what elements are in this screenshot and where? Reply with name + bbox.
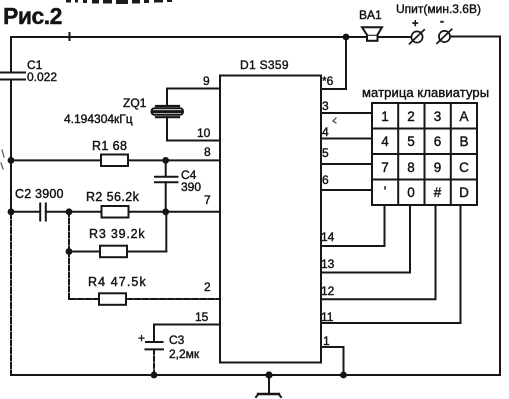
resistor R2: [102, 206, 129, 218]
capacitor C4: [155, 160, 178, 211]
wire pin10: [167, 140, 220, 142]
wire row pin8 / R1: [11, 159, 220, 161]
svg-text:2: 2: [407, 109, 415, 124]
label pin 7: [204, 193, 211, 207]
wire pin3 to keypad row1: [321, 112, 372, 114]
svg-text:4: 4: [381, 134, 389, 149]
label Uпит: [396, 2, 481, 16]
wire keypad col1 to pin14: [321, 205, 385, 246]
svg-text:-: -: [440, 14, 444, 28]
svg-text:15: 15: [195, 310, 209, 324]
label C3 polarity plus: [138, 331, 145, 345]
svg-text:1: 1: [323, 334, 330, 348]
junction node ground: [265, 371, 272, 378]
svg-text:14: 14: [321, 230, 335, 244]
caption Рис.2: [3, 3, 62, 29]
terminal minus: [437, 29, 452, 43]
label ZQ1: [123, 96, 147, 110]
svg-text:ZQ1: ZQ1: [123, 96, 147, 110]
wire crystal bottom vertical: [166, 117, 168, 141]
wire left rail upper: [10, 37, 12, 72]
keypad key hash: [434, 185, 442, 200]
label pin *6: [322, 74, 334, 88]
svg-text:R2 56.2k: R2 56.2k: [86, 190, 140, 204]
tick mark on top rail: [69, 33, 71, 40]
label pin 3: [322, 99, 329, 113]
label pin 4: [322, 125, 329, 139]
wire R4 branch vertical: [68, 252, 70, 300]
svg-text:Рис.2: Рис.2: [3, 3, 62, 29]
label pin 13: [321, 257, 335, 271]
wire C3 down to bottom rail: [153, 349, 155, 375]
svg-text:R3 39.2k: R3 39.2k: [89, 227, 145, 241]
speaker BA1: [362, 27, 382, 41]
wire row pin15: [154, 324, 220, 326]
label pin 8: [204, 145, 211, 159]
wire row R3: [69, 251, 166, 253]
keypad key 1: [381, 109, 389, 124]
capacitor C2: [40, 204, 46, 221]
svg-text:#: #: [434, 185, 442, 200]
label minus: [440, 14, 444, 28]
svg-text:C3: C3: [169, 333, 185, 347]
keypad key 7: [381, 160, 389, 175]
label R3 value: [89, 227, 145, 241]
svg-text:Uпит(мин.3.6В): Uпит(мин.3.6В): [396, 2, 481, 16]
svg-text:5: 5: [322, 146, 329, 160]
label pin 11: [321, 310, 334, 324]
svg-text:0: 0: [407, 185, 415, 200]
terminal plus: [410, 30, 425, 44]
wire pin 6a vertical to top rail: [345, 37, 347, 89]
svg-text:R1 68: R1 68: [92, 139, 127, 153]
wire row pin7 / R2 right: [46, 211, 220, 213]
svg-text:8: 8: [407, 160, 415, 175]
noise speck right of IC: [333, 118, 336, 123]
label R4 value: [88, 275, 147, 289]
label D1 S359: [240, 58, 289, 72]
junction node top rail speaker: [343, 34, 350, 41]
label pin 14: [321, 230, 335, 244]
svg-text:B: B: [459, 134, 468, 149]
svg-text:матрица клавиатуры: матрица клавиатуры: [362, 85, 489, 100]
wire crystal top vertical: [166, 89, 168, 107]
keypad key C: [459, 160, 469, 175]
junction node pin1 bottom rail: [340, 372, 347, 379]
junction node C4 bottom: [162, 208, 169, 215]
label pin 6: [322, 173, 329, 187]
svg-text:2,2мк: 2,2мк: [169, 347, 200, 361]
label BA1: [359, 8, 382, 22]
wire R3 branch vertical: [68, 212, 70, 252]
svg-text:1: 1: [381, 109, 389, 124]
svg-text:6: 6: [322, 173, 329, 187]
svg-text:7: 7: [204, 193, 211, 207]
keypad key 2: [407, 109, 415, 124]
keypad key 5: [407, 134, 415, 149]
svg-text:R4 47.5k: R4 47.5k: [88, 275, 147, 289]
keypad key 3: [434, 109, 442, 124]
svg-text:8: 8: [204, 145, 211, 159]
wire right rail vertical: [499, 37, 501, 376]
svg-text:BA1: BA1: [359, 8, 382, 22]
label C3 value: [169, 333, 200, 361]
junction node left R2: [8, 208, 15, 215]
resistor R3: [100, 246, 127, 258]
keypad key A: [459, 109, 468, 124]
svg-text:9: 9: [203, 74, 210, 88]
label pin 10: [197, 126, 211, 140]
label pin 12: [321, 284, 335, 298]
svg-text:11: 11: [321, 310, 334, 324]
svg-text:C: C: [459, 160, 469, 175]
wire pin1: [321, 347, 344, 375]
svg-text:4.194304кГц: 4.194304кГц: [64, 112, 133, 126]
keypad key 9: [434, 160, 442, 175]
svg-text:*6: *6: [322, 74, 334, 88]
keypad key 4: [381, 134, 389, 149]
junction node C3 bottom: [151, 372, 158, 379]
svg-text:13: 13: [321, 257, 335, 271]
svg-text:+: +: [412, 18, 418, 30]
wire pin 6a horizontal: [321, 88, 346, 90]
wire pin5 to keypad row3: [321, 163, 372, 165]
crystal ZQ1: [152, 106, 184, 117]
label pin 9: [203, 74, 210, 88]
junction node C4 top: [162, 157, 169, 164]
keypad matrix outline: [372, 103, 477, 205]
keypad key 6: [434, 134, 442, 149]
wire pin4 to keypad row2: [321, 138, 372, 140]
wire row pin7 / R2 left: [11, 211, 40, 213]
wire bottom rail: [11, 374, 500, 376]
junction node left R1: [8, 157, 15, 164]
svg-text:6: 6: [434, 134, 442, 149]
noise speck left edge: [1, 150, 4, 169]
wire keypad col3 to pin12: [321, 205, 436, 299]
wire keypad col4 to pin11: [321, 205, 461, 323]
label ZQ1 frequency: [64, 112, 133, 126]
wire top rail: [11, 36, 411, 38]
svg-text:12: 12: [321, 284, 335, 298]
wire keypad col2 to pin13: [321, 205, 410, 273]
svg-text:3: 3: [322, 99, 329, 113]
label R1 value: [92, 139, 127, 153]
wire left rail middle: [10, 80, 12, 214]
svg-text:A: A: [459, 109, 468, 124]
svg-text:': ': [384, 184, 387, 199]
svg-text:4: 4: [322, 125, 329, 139]
label C2 value: [15, 187, 64, 201]
label keypad title: [362, 85, 489, 100]
svg-text:D: D: [459, 185, 469, 200]
svg-text:10: 10: [197, 126, 211, 140]
svg-text:2: 2: [204, 280, 211, 294]
svg-text:D1 S359: D1 S359: [240, 58, 289, 72]
wire row pin2 / R4: [69, 298, 220, 300]
svg-text:C2 3900: C2 3900: [15, 187, 64, 201]
keypad key star: [384, 184, 387, 199]
label pin 2: [204, 280, 211, 294]
label C1 value: [27, 58, 57, 84]
wire pin15 down to C3: [153, 325, 155, 342]
label plus: [412, 18, 418, 30]
svg-text:5: 5: [407, 134, 415, 149]
wire R3 to R2 row vertical: [165, 212, 167, 252]
wire pin6 to keypad row4: [321, 189, 372, 191]
label pin 5: [322, 146, 329, 160]
svg-text:+: +: [138, 331, 145, 345]
op-amp U1 IC D1 S359 body: [220, 76, 321, 363]
resistor R4: [99, 293, 126, 305]
label pin 1: [323, 334, 330, 348]
label C4 value: [181, 168, 201, 194]
capacitor C3: [146, 342, 164, 349]
label pin 15: [195, 310, 209, 324]
svg-text:0.022: 0.022: [27, 70, 57, 84]
label R2 value: [86, 190, 140, 204]
capacitor C1: [0, 73, 25, 80]
svg-text:3: 3: [434, 109, 442, 124]
svg-text:7: 7: [381, 160, 389, 175]
wire left rail lower: [10, 213, 12, 375]
keypad key 8: [407, 160, 415, 175]
junction node R3 branch top: [66, 208, 73, 215]
svg-text:9: 9: [434, 160, 442, 175]
resistor R1: [101, 155, 128, 167]
wire pin9: [167, 88, 220, 90]
wire right rail top: [450, 36, 500, 38]
keypad key D: [459, 185, 469, 200]
cropped text fragment top edge: [66, 0, 172, 4]
ground: [256, 375, 281, 397]
svg-text:390: 390: [181, 180, 201, 194]
keypad key 0: [407, 185, 415, 200]
junction node R3 row: [66, 248, 73, 255]
keypad key B: [459, 134, 468, 149]
